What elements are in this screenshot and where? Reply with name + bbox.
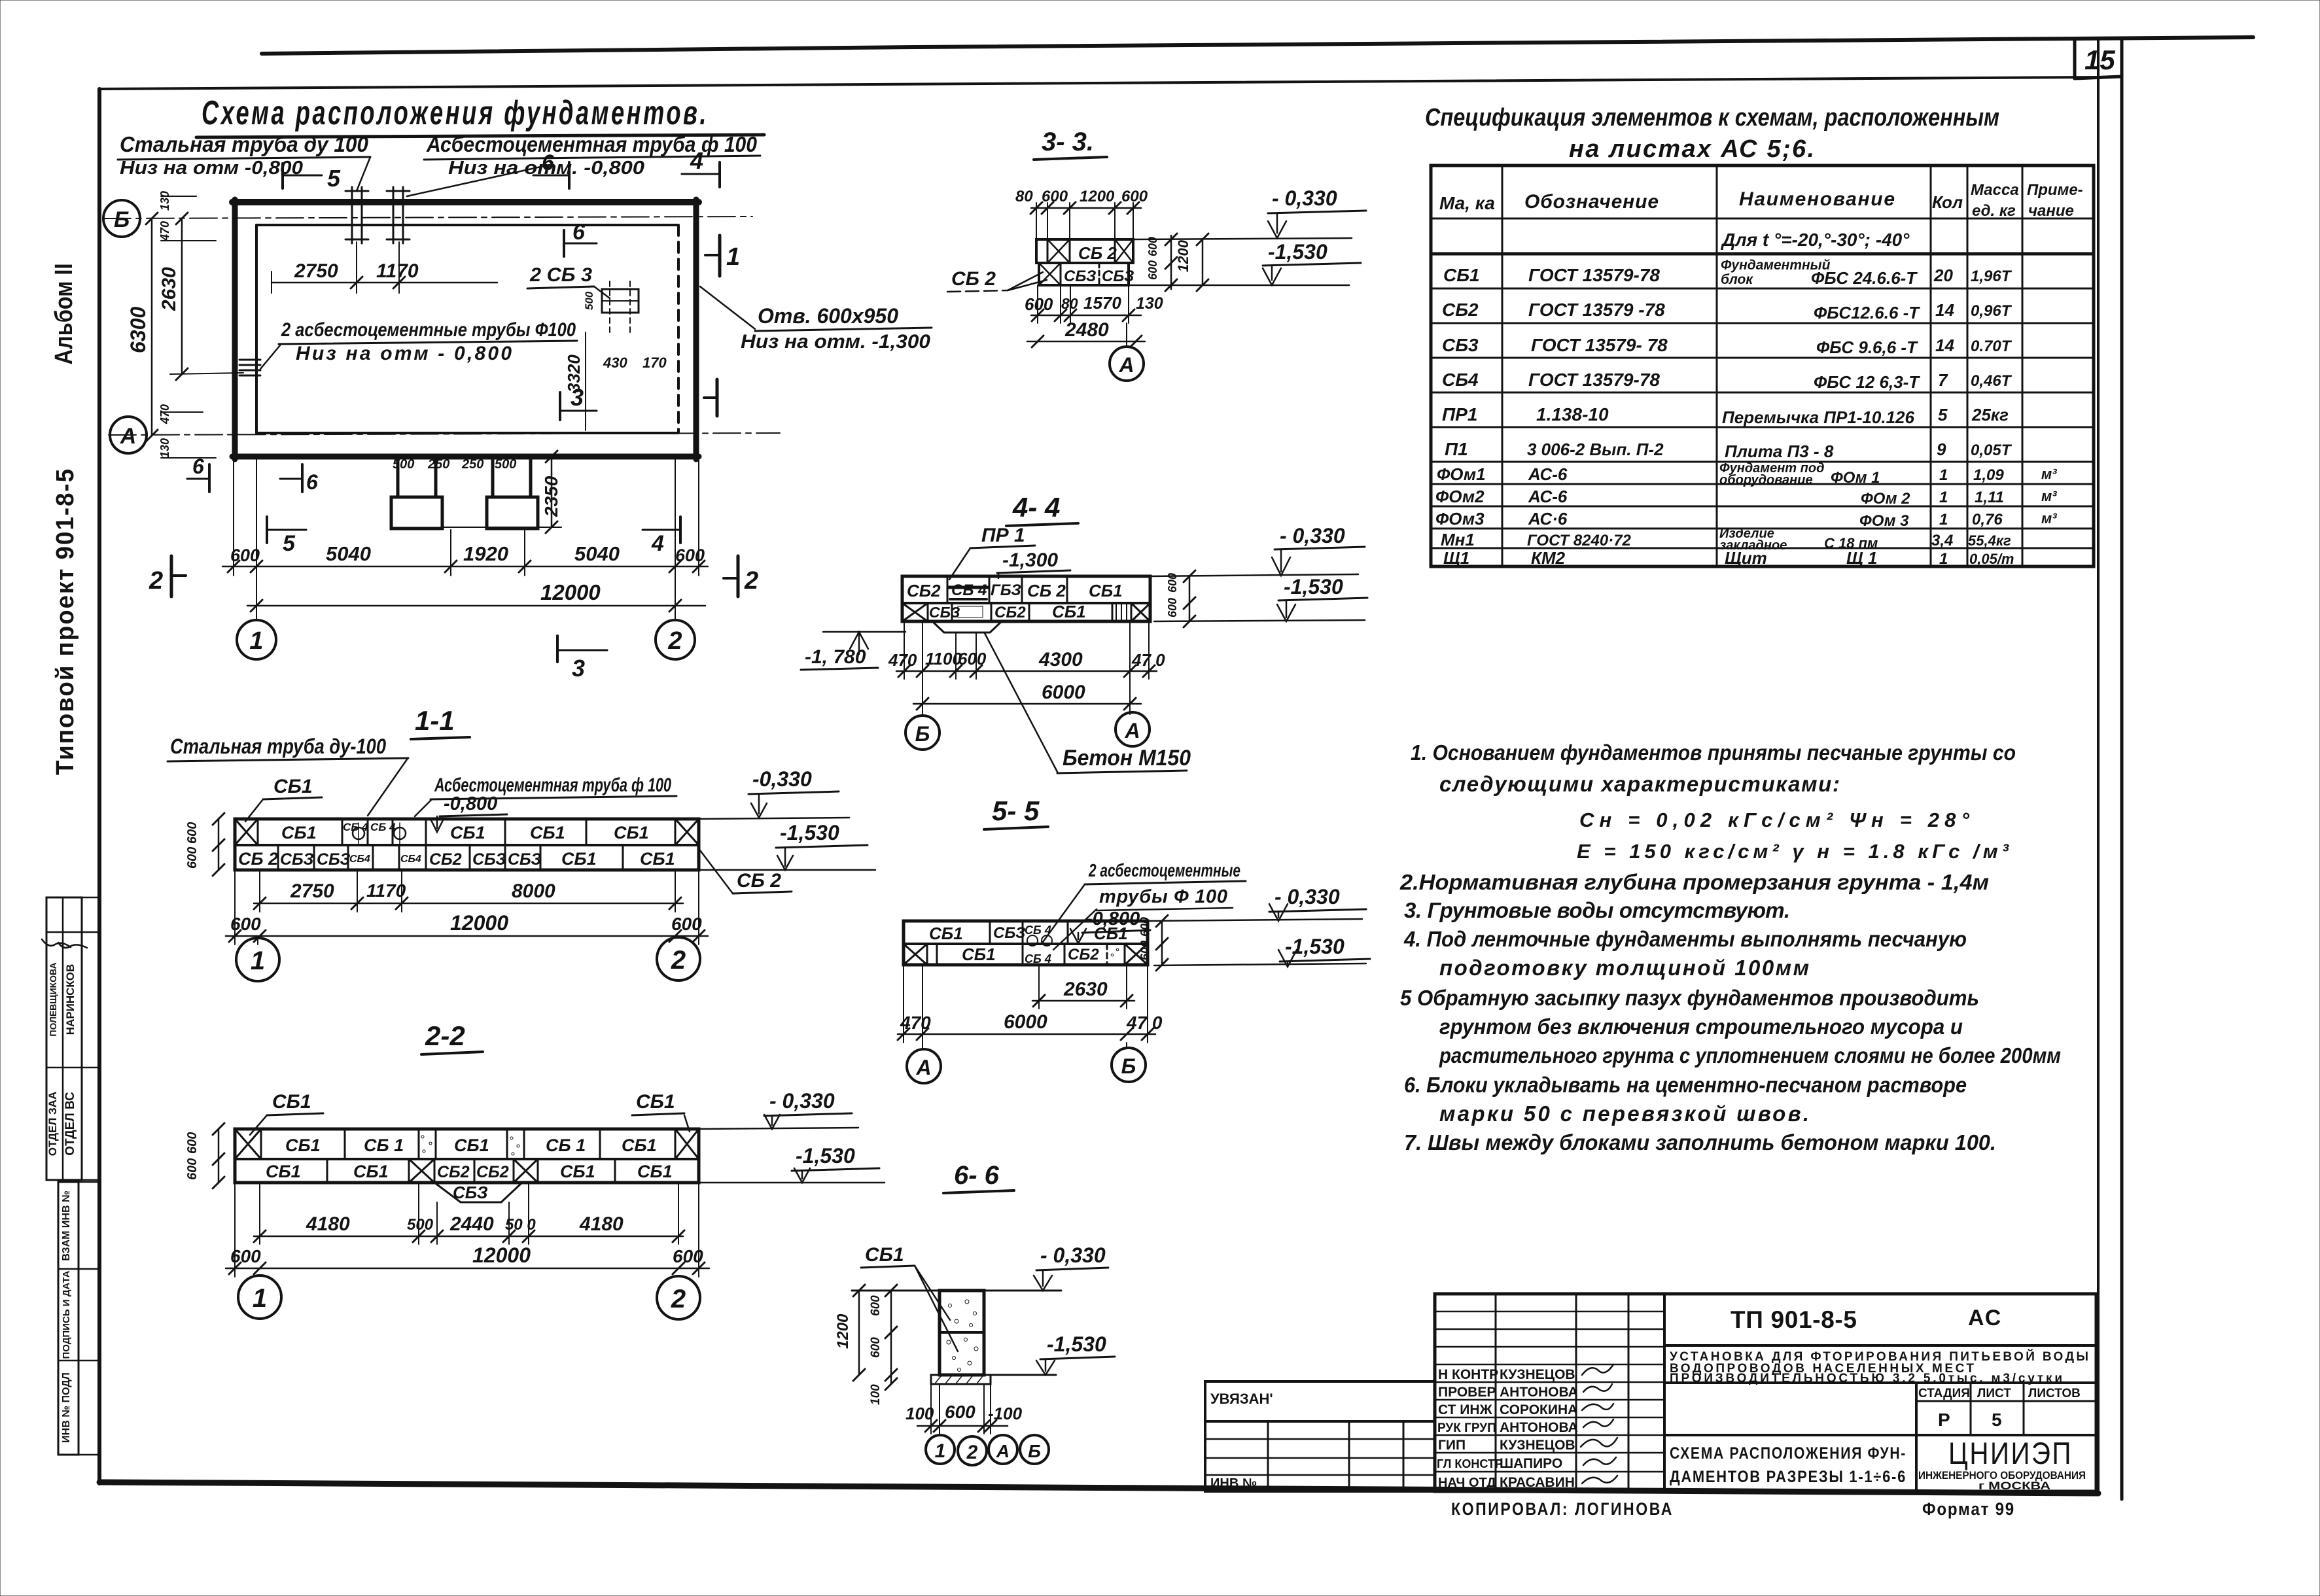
svg-text:5: 5 [1992, 1410, 2002, 1430]
svg-text:КМ2: КМ2 [1531, 548, 1566, 568]
svg-text:2: 2 [671, 1285, 686, 1313]
svg-text:6300: 6300 [126, 307, 150, 353]
svg-text:СБ1: СБ1 [560, 1162, 595, 1181]
plan: axis circle Б [103, 200, 140, 237]
svg-text:Б: Б [915, 722, 930, 746]
svg-text:2: 2 [744, 567, 758, 595]
svg-text:А: А [1118, 353, 1134, 377]
svg-text:растительного грунта с уплот: растительного грунта с уплотнением слоям… [1439, 1043, 2061, 1067]
svg-text:-0,800: -0,800 [444, 793, 497, 814]
svg-text:80: 80 [1015, 188, 1033, 205]
svg-text:следующими характеристиками:: следующими характеристиками: [1439, 772, 1840, 796]
spec row: Для t [1721, 230, 1910, 250]
spec row ФОм1 [1437, 461, 2057, 487]
spec row СБ3 [1442, 335, 2012, 357]
plan: section mark 3 (middle) [560, 384, 597, 420]
svg-text:СБЗ: СБЗ [453, 1183, 488, 1202]
2-2 axis circle 1 [238, 1275, 281, 1319]
svg-text:АС·6: АС·6 [1528, 509, 1568, 529]
title block drawing name [1664, 1435, 2096, 1486]
svg-text:100: 100 [905, 1404, 934, 1423]
svg-text:Б: Б [1121, 1054, 1136, 1078]
4-4 block strip outline [902, 576, 1150, 621]
plan: label Асбестоцементная труба ф 100 [407, 132, 760, 196]
svg-text:600: 600 [869, 1337, 883, 1358]
6-6 column blocks [940, 1291, 984, 1375]
signature table grid [1435, 1294, 1664, 1491]
svg-text:Плита П3 - 8: Плита П3 - 8 [1725, 442, 1834, 461]
svg-text:2-2: 2-2 [425, 1020, 465, 1051]
svg-text:600: 600 [671, 914, 702, 934]
3-3 block row2 [1039, 263, 1134, 285]
svg-text:15: 15 [2084, 44, 2115, 75]
signature squiggles [1581, 1364, 1617, 1483]
svg-text:Сн = 0,02 кГс/см² Ψн = 28°: Сн = 0,02 кГс/см² Ψн = 28° [1579, 808, 1970, 831]
spec table title [1425, 104, 1999, 163]
svg-text:СБ 2: СБ 2 [1027, 581, 1066, 600]
svg-text:500: 500 [407, 1216, 434, 1234]
svg-text:0.70Т: 0.70Т [1971, 338, 2012, 355]
svg-text:марки 50 с перевязкой швов: марки 50 с перевязкой швов. [1439, 1102, 1809, 1126]
svg-text:12000: 12000 [450, 911, 508, 935]
svg-text:4- 4: 4- 4 [1012, 492, 1060, 523]
svg-text:600: 600 [1025, 294, 1053, 314]
svg-text:50 0: 50 0 [505, 1216, 536, 1234]
svg-text:А: А [120, 424, 137, 449]
6-6 axis circles 1 2 А Б [926, 1435, 955, 1464]
5-5 axis circle А [907, 1043, 941, 1083]
2-2 row2 dividers [327, 1159, 615, 1183]
svg-text:АНТОНОВА: АНТОНОВА [1500, 1385, 1578, 1400]
svg-text:600: 600 [1138, 917, 1151, 937]
svg-text:СБ1: СБ1 [285, 1136, 321, 1155]
section 4-4 title [1006, 492, 1078, 526]
svg-text:0,05/т: 0,05/т [1969, 551, 2014, 567]
svg-text:СБ1: СБ1 [561, 849, 597, 869]
plan: wall pipes hatch (left wall) [239, 360, 260, 375]
2-2 row2 X blocks [409, 1159, 538, 1183]
svg-text:600: 600 [1121, 188, 1148, 205]
svg-text:25кг: 25кг [1971, 405, 2009, 425]
svg-text:СБ1: СБ1 [929, 924, 963, 943]
svg-text:ФОм3: ФОм3 [1435, 509, 1485, 529]
svg-text:2 асбестоцементные трубы Ф100: 2 асбестоцементные трубы Ф100 [281, 319, 576, 341]
svg-text:600: 600 [1138, 941, 1151, 960]
plan: asbestos pipe symbol on top wall [387, 187, 410, 243]
plan: axis А dash-dot line [109, 433, 780, 435]
svg-text:600: 600 [1042, 188, 1068, 205]
svg-text:6: 6 [306, 470, 318, 494]
svg-text:- 0,330: - 0,330 [769, 1089, 835, 1113]
1-1 dim line 2750/1170/8000 [254, 870, 683, 912]
svg-text:ед. кг: ед. кг [1972, 202, 2016, 220]
svg-text:3. Грунтовые воды отсутствую: 3. Грунтовые воды отсутствуют. [1404, 898, 1790, 922]
plan: axis Б dash-dot line [103, 217, 752, 218]
plan: section mark 2 (left) [149, 556, 186, 597]
svg-text:1200: 1200 [1080, 188, 1115, 205]
1-1 axis circle 2 [657, 937, 700, 980]
svg-text:1: 1 [935, 1440, 946, 1462]
1-1 elevation -0,800 [431, 793, 507, 832]
svg-text:А: А [1124, 719, 1140, 742]
svg-text:6- 6: 6- 6 [954, 1161, 1000, 1190]
svg-text:600: 600 [230, 914, 261, 934]
svg-text:ФБС 9.6,6 -Т: ФБС 9.6,6 -Т [1816, 338, 1918, 357]
section 3-3 title [1034, 128, 1107, 160]
2-2 elevation -1,530 [699, 1144, 885, 1183]
2-2 label СБ1 left [250, 1091, 323, 1135]
svg-text:Формат 99: Формат 99 [1922, 1499, 2015, 1519]
svg-text:1170: 1170 [366, 880, 406, 901]
3-3 block row1 [1036, 239, 1133, 263]
plan: section mark 6 (bottom-left interior) [187, 455, 209, 492]
svg-text:600: 600 [1166, 598, 1179, 617]
spec row ФОм2 [1435, 487, 2057, 508]
6-6 elevation -0,330 [1034, 1243, 1108, 1291]
svg-text:ПР1: ПР1 [1442, 404, 1477, 425]
right outer frame line [2120, 38, 2124, 1499]
bottom frame line [99, 1482, 2098, 1493]
plan: left wall inner line [255, 225, 258, 433]
5-5 row2 cells [904, 944, 1148, 965]
title block project name [1664, 1349, 2096, 1385]
svg-text:2350: 2350 [541, 476, 561, 517]
svg-text:4180: 4180 [579, 1213, 624, 1235]
1-1 label Асбестоцементная труба ф 100 [415, 774, 677, 816]
svg-text:КУЗНЕЦОВ: КУЗНЕЦОВ [1500, 1438, 1575, 1453]
svg-text:Отв. 600х950: Отв. 600х950 [758, 304, 898, 328]
svg-text:5: 5 [327, 165, 341, 192]
plan: section mark 5 (top) [283, 164, 341, 192]
svg-text:АС-6: АС-6 [1528, 487, 1568, 506]
svg-text:СБ2: СБ2 [907, 581, 941, 600]
3-3 right vertical dim 1200 [1175, 234, 1208, 291]
svg-text:1: 1 [1939, 550, 1948, 568]
svg-text:2: 2 [671, 946, 686, 975]
plan: equipment foundation pilaster 1 [391, 457, 442, 529]
svg-text:9: 9 [1937, 440, 1946, 459]
5-5 elevation -0,330 [1148, 885, 1366, 921]
plan: section mark 5 (bottom left) [267, 517, 306, 556]
svg-text:100: 100 [869, 1384, 883, 1405]
2-2 dim line 600/12000/600 [226, 1183, 709, 1277]
копировал text [1451, 1499, 1674, 1519]
plan: section mark 3 (bottom) [557, 636, 607, 682]
plan: bottom dimension line 12000 [247, 580, 705, 612]
2-2 elevation -0,330 [699, 1089, 858, 1129]
svg-text:2.Нормативная глубина промер: 2.Нормативная глубина промерзания грунта… [1399, 870, 1989, 894]
4-4 right vertical dims 600/600 [1166, 570, 1195, 627]
2-2 label СБ1 right [632, 1091, 690, 1132]
title block outer frame [1435, 1294, 2096, 1491]
svg-text:СБ1: СБ1 [450, 823, 485, 842]
svg-text:1920: 1920 [463, 542, 508, 565]
svg-text:СБ1: СБ1 [266, 1162, 301, 1181]
plan: section mark 6 (bottom interior second) [280, 464, 318, 494]
plan: top wall inner line [256, 224, 677, 226]
svg-text:600: 600 [945, 1402, 975, 1422]
5-5 elevation -1,530 [1154, 935, 1370, 967]
svg-text:Мн1: Мн1 [1441, 530, 1475, 549]
svg-text:1: 1 [253, 1284, 267, 1313]
1-1 label Стальная труба ду-100 [167, 735, 408, 816]
svg-text:СБ2: СБ2 [437, 1163, 470, 1181]
svg-text:КОПИРОВАЛ: ЛОГИНОВА: КОПИРОВАЛ: ЛОГИНОВА [1451, 1499, 1674, 1519]
plan: small dims 130 470 top-left [158, 191, 216, 241]
plan: section mark 4 (top right) [682, 147, 720, 187]
svg-text:АНТОНОВА: АНТОНОВА [1500, 1420, 1578, 1435]
6-6 left dims 600/600/100 [869, 1285, 897, 1405]
plan: section mark 6a (right wall) [704, 379, 717, 416]
svg-text:ФБС 24.6.6-Т: ФБС 24.6.6-Т [1811, 268, 1918, 288]
spec row Щ1 [1443, 548, 2014, 568]
6-6 label СБ1 [861, 1244, 958, 1351]
svg-text:АС: АС [1968, 1306, 2002, 1330]
2-2 row2 labels [266, 1162, 673, 1181]
svg-text:1: 1 [1939, 466, 1948, 484]
svg-text:ФОм1: ФОм1 [1437, 464, 1486, 484]
plan: 2 СБ3 label with leader [527, 264, 610, 298]
svg-text:Масса: Масса [1971, 181, 2019, 199]
svg-text:1: 1 [1939, 489, 1948, 506]
svg-text:1: 1 [1939, 511, 1948, 529]
spec table header texts [1439, 181, 2083, 220]
svg-text:2630: 2630 [158, 267, 180, 311]
spec row СБ2 [1442, 300, 2012, 322]
lower stamp rotated texts [61, 1190, 72, 1443]
5-5 dim line 470/6000/470 [898, 965, 1163, 1043]
svg-text:Кол: Кол [1932, 192, 1963, 212]
svg-text:КРАСАВИН: КРАСАВИН [1500, 1475, 1575, 1490]
svg-text:ФОм 2: ФОм 2 [1861, 490, 1910, 508]
svg-text:3- 3.: 3- 3. [1042, 128, 1094, 156]
1-1 left vertical dim 600/600 [185, 813, 224, 876]
svg-text:АС-6: АС-6 [1528, 464, 1568, 484]
plan: top wall outer line [232, 199, 699, 205]
svg-text:12000: 12000 [472, 1243, 531, 1267]
2-2 right X block row1 [675, 1129, 699, 1159]
plan: right wall outer line [694, 199, 699, 459]
1-1 pipe circles in wall [353, 823, 406, 844]
1-1 block strip outline [235, 819, 699, 870]
spec row ФОм3 [1435, 509, 2057, 530]
svg-text:СБ1: СБ1 [1089, 581, 1123, 600]
1-1 elevation -0,330 [699, 767, 849, 819]
1-1 left X block [235, 819, 258, 845]
svg-text:2630: 2630 [1063, 979, 1108, 1000]
2-2 left X block row1 [235, 1129, 261, 1159]
svg-text:430: 430 [603, 355, 627, 371]
svg-text:250: 250 [427, 457, 449, 472]
5-5 label 2 асбестоцементные трубы [1043, 860, 1246, 950]
svg-text:СБ2: СБ2 [429, 850, 462, 869]
svg-text:СБЗ: СБЗ [929, 604, 960, 621]
plan: left wall outer line [232, 199, 238, 459]
svg-text:6000: 6000 [1042, 682, 1085, 703]
svg-text:СБ1: СБ1 [530, 823, 565, 842]
4-4 label Бетон М150 [985, 633, 1191, 773]
svg-text:СХЕМА РАСПОЛОЖЕНИЯ ФУН-: СХЕМА РАСПОЛОЖЕНИЯ ФУН- [1670, 1444, 1907, 1463]
svg-text:6: 6 [572, 220, 586, 245]
plan: label 2 асбестоцементные трубы [260, 319, 577, 369]
4-4 label ПР1 [949, 525, 1035, 580]
plan: dim 2350 vertical at pilasters [442, 451, 561, 533]
svg-text:СБ2: СБ2 [476, 1163, 509, 1181]
2-2 СБ3 trapezoid below strip [434, 1183, 522, 1202]
svg-text:130: 130 [1136, 294, 1163, 313]
svg-text:Щ1: Щ1 [1443, 548, 1469, 568]
svg-text:Н КОНТР: Н КОНТР [1438, 1367, 1498, 1382]
1-1 row1 cell dividers [258, 819, 675, 845]
inner top frame line [99, 77, 2098, 89]
svg-text:14: 14 [1935, 336, 1954, 355]
svg-text:7. Швы между блоками заполни: 7. Швы между блоками заполнить бетоном м… [1404, 1130, 1996, 1154]
svg-text:Б: Б [1028, 1441, 1041, 1461]
plan: left dim 6300 [126, 213, 158, 442]
svg-text:14: 14 [1935, 300, 1954, 320]
svg-text:2: 2 [966, 1442, 978, 1463]
svg-text:250: 250 [461, 457, 483, 472]
svg-text:ДАМЕНТОВ РАЗРЕЗЫ 1-1÷6-6: ДАМЕНТОВ РАЗРЕЗЫ 1-1÷6-6 [1670, 1468, 1907, 1486]
plan: section mark 6 (interior, near pipe) [564, 220, 597, 256]
svg-text:СБ2: СБ2 [994, 604, 1026, 621]
svg-text:Щ 1: Щ 1 [1846, 548, 1877, 568]
svg-text:1: 1 [249, 627, 263, 655]
svg-text:Низ на отм - 0,800: Низ на отм - 0,800 [296, 343, 512, 364]
svg-text:ГЛ КОНСТР: ГЛ КОНСТР [1437, 1457, 1503, 1470]
section 1-1 title [411, 705, 470, 739]
4-4 elevation -0,330 [1150, 524, 1365, 576]
spec row СБ4 [1442, 370, 2012, 392]
svg-text:СБЗ: СБЗ [508, 850, 542, 869]
plan: label Стальная труба ду 100 [118, 132, 370, 191]
svg-text:600: 600 [673, 1246, 703, 1266]
svg-text:4. Под ленточные фундаменты: 4. Под ленточные фундаменты выполнять пе… [1403, 927, 1967, 951]
svg-text:СБ1: СБ1 [272, 1091, 311, 1113]
svg-text:ЦНИИЭП: ЦНИИЭП [1948, 1436, 2073, 1470]
3-3 right vertical dims 600 600 [1146, 234, 1177, 291]
svg-text:1.138-10: 1.138-10 [1536, 404, 1609, 425]
upper stamp rotated text ОТДЕЛ ЗАА / ПОЛЕВЩИКОВА [42, 939, 71, 1156]
3-3 elevation -0,330 [1133, 186, 1366, 239]
svg-text:4: 4 [690, 147, 703, 174]
plan: section mark 2 (right) [724, 556, 758, 597]
svg-text:СБ 2: СБ 2 [951, 268, 996, 290]
plan: bottom wall outer line [232, 454, 699, 460]
spec table grid [1431, 165, 2094, 566]
svg-text:-1, 780: -1, 780 [805, 646, 866, 668]
svg-text:Асбестоцементная труба ф 100: Асбестоцементная труба ф 100 [426, 132, 757, 156]
svg-text:47 0: 47 0 [1126, 1013, 1163, 1033]
2-2 block strip outline [235, 1129, 699, 1183]
3-3 top dims 80/600/1200/600 [1015, 188, 1148, 239]
svg-text:-1,530: -1,530 [1047, 1332, 1106, 1356]
svg-text:- 0,330: - 0,330 [1280, 524, 1345, 547]
6-6 elevation -1,530 [1036, 1332, 1115, 1375]
svg-text:600: 600 [185, 822, 200, 844]
svg-text:чание: чание [2028, 202, 2074, 220]
svg-text:РУК ГРУП: РУК ГРУП [1437, 1421, 1496, 1435]
svg-text:м³: м³ [2041, 510, 2057, 527]
svg-text:СБ1: СБ1 [1094, 924, 1128, 943]
section 6-6 title [943, 1161, 1014, 1193]
4-4 axis circle А [1116, 712, 1150, 746]
svg-text:Е = 150 кгс/см² γ н = 1.8: Е = 150 кгс/см² γ н = 1.8 кГс /м³ [1577, 840, 2009, 863]
svg-text:ФБС12.6.6 -Т: ФБС12.6.6 -Т [1814, 303, 1920, 322]
svg-text:1170: 1170 [376, 260, 419, 282]
svg-text:НАЧ ОТД: НАЧ ОТД [1438, 1476, 1496, 1490]
1-1 label СБ2 right with leader [700, 850, 792, 893]
svg-text:Низ на отм -0,800: Низ на отм -0,800 [120, 158, 303, 179]
svg-text:НАРИНСКОВ: НАРИНСКОВ [64, 964, 77, 1035]
svg-text:Спецификация элементов к схема: Спецификация элементов к схемам, располо… [1425, 104, 1999, 131]
svg-text:СБ 1: СБ 1 [364, 1136, 404, 1155]
svg-text:ИНВ №: ИНВ № [1210, 1476, 1257, 1491]
svg-text:ФОм 3: ФОм 3 [1859, 512, 1909, 530]
plan: section mark 1 (right) [705, 235, 740, 276]
svg-text:-1,530: -1,530 [1268, 240, 1327, 264]
svg-text:5- 5: 5- 5 [992, 795, 1040, 826]
2-2 dim line 4180/500/2440/500/4180 [254, 1183, 684, 1244]
sheet number box 15 [2075, 39, 2121, 78]
svg-text:СБЗ: СБЗ [1064, 268, 1096, 285]
svg-text:СБ1: СБ1 [636, 1091, 675, 1113]
svg-text:Стальная труба ду 100: Стальная труба ду 100 [120, 132, 369, 156]
svg-text:ОТДЕЛ ВС: ОТДЕЛ ВС [63, 1092, 77, 1156]
svg-text:3: 3 [572, 655, 585, 682]
svg-text:1: 1 [726, 243, 740, 271]
svg-text:1. Основанием фундаментов прин: 1. Основанием фундаментов приняты песчан… [1411, 740, 2016, 765]
svg-text:5040: 5040 [326, 542, 371, 565]
left margin upper stamp table [46, 897, 99, 1180]
svg-text:СБ4: СБ4 [349, 854, 370, 865]
svg-text:СБ1: СБ1 [962, 945, 996, 964]
svg-text:0,05Т: 0,05Т [1971, 442, 2012, 459]
title block right part: ТП 901-8-5 / АС [1664, 1306, 2096, 1345]
svg-text:Типовой проект 901-8-5: Типовой проект 901-8-5 [52, 468, 79, 775]
4-4 elevation -1,530 [1154, 575, 1367, 621]
svg-text:3: 3 [571, 384, 584, 411]
plan: dim 3320 vertical [564, 332, 586, 430]
svg-text:СБ1: СБ1 [1443, 265, 1480, 285]
spec row СБ1 [1443, 258, 2012, 288]
svg-text:ГОСТ 13579-78: ГОСТ 13579-78 [1528, 370, 1660, 390]
svg-text:2480: 2480 [1064, 319, 1109, 341]
spec row Мн1 [1441, 527, 2011, 553]
svg-text:Б: Б [114, 207, 130, 232]
1-1 right X block [675, 819, 699, 845]
svg-text:8000: 8000 [512, 880, 555, 902]
svg-text:1: 1 [251, 946, 265, 975]
svg-text:2750: 2750 [290, 880, 334, 902]
svg-text:470: 470 [888, 650, 917, 670]
svg-text:-1,530: -1,530 [1284, 575, 1343, 598]
svg-text:170: 170 [642, 355, 667, 371]
svg-text:-1,300: -1,300 [1002, 549, 1058, 571]
5-5 axis circle Б [1112, 1043, 1146, 1082]
svg-text:470: 470 [900, 1013, 931, 1033]
svg-text:130: 130 [158, 438, 171, 458]
plan: left dim 2630 [158, 213, 243, 380]
svg-text:на листах АС 5;6.: на листах АС 5;6. [1569, 135, 1814, 163]
title block ЦНИИЭП [1918, 1436, 2086, 1492]
svg-text:2: 2 [149, 567, 163, 595]
svg-text:СБ 2: СБ 2 [1078, 243, 1117, 263]
svg-text:СБ1: СБ1 [1052, 602, 1086, 621]
svg-text:-1,530: -1,530 [796, 1144, 855, 1168]
svg-text:600: 600 [869, 1295, 883, 1316]
upper stamp rotated text ОТДЕЛ ВС / НАРИНСКОВ [58, 943, 87, 1156]
